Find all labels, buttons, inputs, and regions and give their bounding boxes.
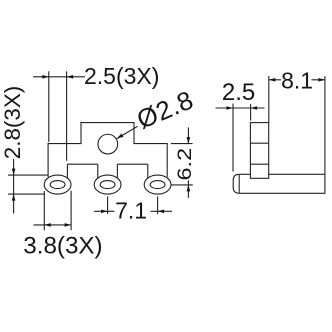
dimension 6.2 line <box>187 127 189 197</box>
eyelet terminal right <box>144 175 171 194</box>
dimension 6.2 extension lines <box>171 144 193 185</box>
eyelet terminal left <box>44 175 71 194</box>
hole leader line <box>117 126 138 139</box>
svg-text:6.2: 6.2 <box>174 148 196 181</box>
dimension 2.5(3X) arrowheads <box>42 75 49 79</box>
svg-text:3.8(3X): 3.8(3X) <box>23 233 102 260</box>
dimension 7.1 extension lines <box>108 197 158 215</box>
svg-text:2.5: 2.5 <box>222 79 255 106</box>
side view pin stack <box>250 123 268 179</box>
dimension 2.8(3X) arrowheads <box>12 169 16 176</box>
eyelet terminal center <box>94 175 121 194</box>
dimension 7.1 line <box>94 210 172 212</box>
dimension 8.1 extension lines <box>268 76 270 123</box>
side view base outline <box>239 174 325 193</box>
hole leader arrowhead <box>117 134 124 139</box>
svg-text:8.1: 8.1 <box>281 67 313 93</box>
center hole dia 2.8 <box>98 134 118 154</box>
side view dimension 2.5 line <box>216 107 265 109</box>
dimension 2.5(3X) line <box>33 76 85 78</box>
side view base rounded nose <box>233 174 239 193</box>
dimension 3.8(3X) extension lines <box>44 191 71 231</box>
front view bottom edge segments <box>67 163 147 165</box>
svg-text:7.1: 7.1 <box>115 198 147 224</box>
dimension 8.1 arrowheads <box>269 78 276 82</box>
dimension 3.8(3X) arrowheads <box>44 223 51 227</box>
dimension 3.8(3X) line <box>34 224 72 226</box>
dimension 8.1 line <box>269 79 325 81</box>
terminal tab sides <box>67 164 147 178</box>
side view pin segment divisions <box>250 143 268 164</box>
dimension 7.1 arrowheads <box>101 210 108 214</box>
dimension 2.8(3X) line <box>13 159 15 214</box>
side view dimension 2.5 arrowheads <box>227 106 234 110</box>
side view dimension 2.5 feature lines <box>232 104 234 172</box>
svg-text:2.8(3X): 2.8(3X) <box>0 86 25 159</box>
dimension 6.2 arrowheads <box>187 137 191 144</box>
svg-text:2.5(3X): 2.5(3X) <box>84 63 159 89</box>
front view body outline <box>48 123 167 177</box>
side view base nose tangent line <box>238 174 240 193</box>
dimension 2.5(3X) extension lines <box>49 71 67 161</box>
dimension 2.8(3X) extension lines <box>8 175 48 194</box>
